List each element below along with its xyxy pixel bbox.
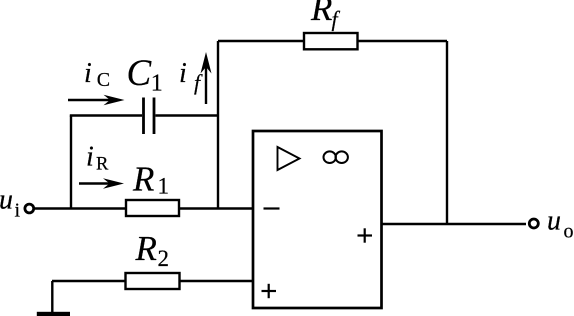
terminal u_i (25, 204, 34, 213)
wire capacitor right segment (156, 114, 220, 116)
wire C-branch vertical (70, 116, 72, 209)
svg-text:i: i (84, 58, 92, 89)
wire node vertical (cap/feedback node down to inverting input wire) (217, 41, 219, 209)
op-amp infinity gain symbol (324, 151, 348, 163)
svg-text:C: C (127, 53, 153, 94)
svg-text:R: R (310, 0, 332, 28)
wire feedback vertical (446, 41, 448, 224)
current arrow iC (68, 95, 125, 105)
label Rf (310, 0, 341, 32)
wire input (u_i to op-amp inverting input) (34, 207, 253, 209)
wire output (382, 223, 527, 225)
wire capacitor left segment (70, 114, 142, 116)
svg-text:R: R (135, 229, 157, 268)
svg-text:u: u (0, 185, 13, 216)
svg-text:R: R (96, 155, 109, 175)
current arrow iR (79, 178, 124, 188)
svg-text:1: 1 (151, 71, 163, 97)
capacitor C1 (144, 98, 155, 135)
label R2 (135, 229, 170, 271)
op-amp triangle symbol (278, 147, 300, 170)
label C1 (127, 53, 163, 97)
svg-text:1: 1 (158, 174, 170, 199)
resistor R2 (126, 273, 180, 289)
svg-text:o: o (564, 221, 574, 243)
op-amp inverting input label (minus) (264, 207, 280, 209)
wire ground vertical (51, 281, 53, 313)
op-amp output polarity label (plus) (358, 228, 373, 242)
label u_i (0, 185, 21, 222)
svg-text:C: C (97, 69, 110, 91)
svg-text:i: i (15, 200, 21, 222)
label R1 (132, 160, 169, 199)
ground (37, 312, 70, 316)
svg-text:2: 2 (158, 246, 170, 271)
current arrow if (201, 52, 212, 104)
label iC (84, 58, 110, 91)
label if (179, 58, 203, 95)
op-amp noninverting input label (plus) (262, 284, 277, 298)
terminal u_o (529, 219, 538, 228)
svg-text:R: R (132, 160, 154, 199)
resistor Rf (304, 33, 358, 49)
svg-text:i: i (179, 58, 187, 89)
resistor R1 (126, 200, 179, 216)
label iR (86, 142, 109, 175)
wire R2 (ground to noninverting input) (52, 280, 253, 282)
svg-text:u: u (547, 206, 561, 237)
label u_o (547, 206, 574, 243)
op-amp U1 body (253, 131, 382, 308)
svg-text:i: i (86, 142, 94, 173)
wire top (to Rf) (218, 40, 447, 42)
